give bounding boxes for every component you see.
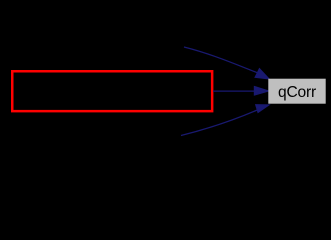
arrowhead of edge 3 [256,105,270,113]
arrowhead of edge 2 [254,86,269,95]
arrowhead of edge 1 [255,69,269,80]
edge 2 (current function -> qCorr, straight) [213,90,256,92]
node current-function (red border, black fill) [12,71,212,111]
label qCorr [278,84,316,101]
node qCorr (grey box) [268,79,325,104]
edge 3 (bottom caller -> qCorr) [181,110,257,136]
edge 1 (top caller -> qCorr) [184,47,258,73]
svg-text:qCorr: qCorr [278,84,316,101]
